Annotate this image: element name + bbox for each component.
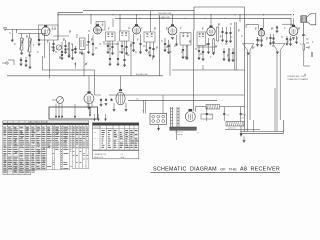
svg-text:B+: B+ [137, 99, 139, 101]
svg-text:C-31: C-31 [226, 115, 230, 117]
svg-text:T-1: T-1 [197, 133, 199, 135]
svg-text:xx: xx [94, 138, 96, 140]
svg-text:BLK-RED LINE: BLK-RED LINE [136, 74, 148, 76]
svg-text:3000: 3000 [121, 157, 125, 159]
svg-text:C-25: C-25 [241, 114, 244, 116]
svg-text:C-30: C-30 [208, 115, 212, 117]
svg-text:RED-WHT LINE: RED-WHT LINE [159, 13, 173, 15]
svg-text:C-26: C-26 [241, 118, 244, 120]
svg-text:xxxx xxxx x: xxxx xxxx x [93, 127, 101, 129]
svg-text:xxxx xxx: xxxx xxx [177, 134, 183, 136]
svg-text:xxxxx xxxx: xxxxx xxxx [228, 128, 236, 130]
svg-text:FIELD COIL: FIELD COIL [94, 157, 103, 159]
svg-text:B+ RED LINE: B+ RED LINE [159, 17, 171, 19]
svg-text:xxx: xxx [94, 132, 97, 134]
svg-text:7.5: 7.5 [121, 154, 123, 156]
svg-text:xxxxx xxx xxxxxx x xxxxxxxx: xxxxx xxx xxxxxx x xxxxxxxx [28, 122, 48, 124]
svg-text:SCHEMATIC DIAGRAM OF THE A8 RE: SCHEMATIC DIAGRAM OF THE A8 RECEIVER [153, 167, 280, 173]
